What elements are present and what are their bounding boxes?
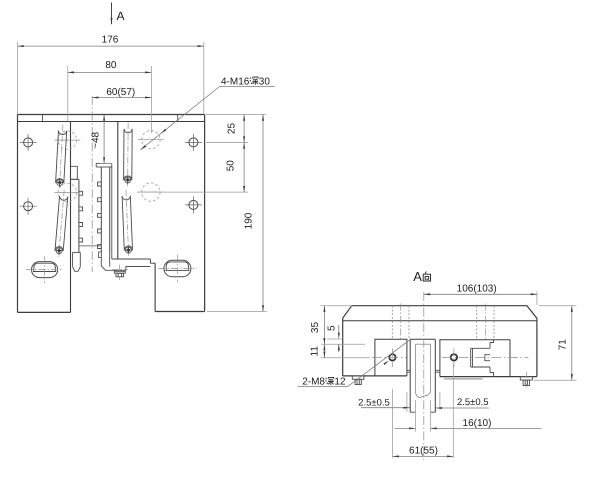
lever bolt lower-left [55,246,64,255]
right plate lower bracket step [112,163,155,311]
clamp tab right gap [435,370,440,372]
dimension 25 [206,115,266,143]
svg-text:5: 5 [326,325,337,331]
label 4-M16 deep 30 with leader [141,76,275,149]
dimension 16(10) [395,400,541,432]
right rail cap [96,163,112,167]
bottom clamp bolt [113,265,128,280]
M8 hole right [442,348,529,367]
band divider right [177,115,179,122]
dimension ~48 [91,115,113,164]
slotted hole right plate centerlines [158,255,196,282]
slotted hole left plate centerlines [26,256,63,283]
dimension 35 [310,306,365,345]
right clamp block [440,340,510,379]
dimension 71 [534,306,577,381]
clamp lever slot upper-right [124,123,133,186]
svg-text:A: A [117,9,125,23]
section arrow A [111,3,125,25]
clamp tab left gap [407,370,410,372]
hidden M16 hole lines right [477,304,494,342]
svg-text:12: 12 [334,377,346,388]
dimension 60(57) [92,87,151,98]
foot bolt left [352,376,364,385]
dimension 50 [226,142,246,192]
center rail channel inner profile [415,344,430,397]
dimension 2.5 +/-0.5 right [436,392,489,410]
svg-text:60(57): 60(57) [106,87,135,98]
slotted hole right plate outer obround [164,260,191,276]
threaded hole top-left [20,134,37,151]
M16 hole upper-right (dashed) [138,131,164,149]
M16 hole upper-left (dashed) [54,131,80,149]
band divider left [42,115,44,122]
svg-text:~48: ~48 [91,131,102,148]
right plate outline [118,115,205,312]
right rail foot [98,252,150,270]
clamp lever slot lower-right [122,190,132,256]
svg-text:190: 190 [243,212,254,229]
clamp lever slot upper-left [56,125,67,189]
M8 hole left [372,349,407,368]
svg-text:35: 35 [310,322,321,334]
hole row 2 long centerline [137,191,248,193]
threaded hole bottom-right [185,196,202,213]
foot bolt right [520,372,532,388]
left plate outline [18,115,71,313]
dimension 2.5 +/-0.5 left [358,392,409,412]
M16 hole lower-right (dashed) [138,183,164,201]
dimension 80 [68,60,152,133]
front view outline: top flange band [18,115,205,122]
side view outline [343,306,537,377]
svg-text:80: 80 [105,60,117,71]
svg-text:2.5±0.5: 2.5±0.5 [358,397,390,408]
svg-text:71: 71 [557,339,568,351]
hidden M16 hole lines left [392,304,409,342]
left rail mounting tab [71,166,78,179]
right rail channel with rack teeth [98,167,110,252]
svg-text:30: 30 [259,76,271,87]
lever bolt lower-right [124,246,133,255]
left rail bar with rack teeth [71,179,83,252]
T-slot claw in right block [471,340,494,377]
slotted hole left plate outer obround [32,262,58,278]
svg-text:4-M16: 4-M16 [221,76,250,87]
clamp lever slot lower-left [55,190,68,256]
svg-text:61(55): 61(55) [409,445,438,456]
svg-text:A: A [413,269,422,284]
svg-text:2.5±0.5: 2.5±0.5 [457,397,489,408]
left clamp block [375,339,407,376]
center line (rail axis) [91,96,93,272]
rail connector line [79,245,101,247]
M16 hole lower-left (dashed) [54,183,80,201]
view label A (xiang) [413,269,430,284]
hole row 1 extension line [206,141,248,143]
side view center line [423,292,425,462]
dimension 190 [207,115,267,312]
svg-text:106(103): 106(103) [457,283,497,294]
svg-text:2-M8: 2-M8 [302,377,325,388]
svg-text:11: 11 [309,346,320,357]
svg-text:25: 25 [227,123,238,135]
center rail channel outer walls [410,339,435,412]
threaded hole bottom-left [20,198,37,215]
dimension 176 [18,35,204,115]
threaded hole top-right [185,134,202,151]
lever bolt upper-right [123,176,132,185]
dimension 61(55) [393,365,454,458]
dimension 11 [309,344,370,358]
svg-text:16(10): 16(10) [463,418,492,429]
dimension 5 [326,325,341,352]
lever bolt upper-left [55,178,64,187]
dimension 106(103) [424,283,537,305]
svg-text:176: 176 [102,35,119,46]
label 2-M8 deep 12 with leader [298,340,410,388]
left rail foot [73,252,81,271]
svg-text:50: 50 [226,160,237,172]
